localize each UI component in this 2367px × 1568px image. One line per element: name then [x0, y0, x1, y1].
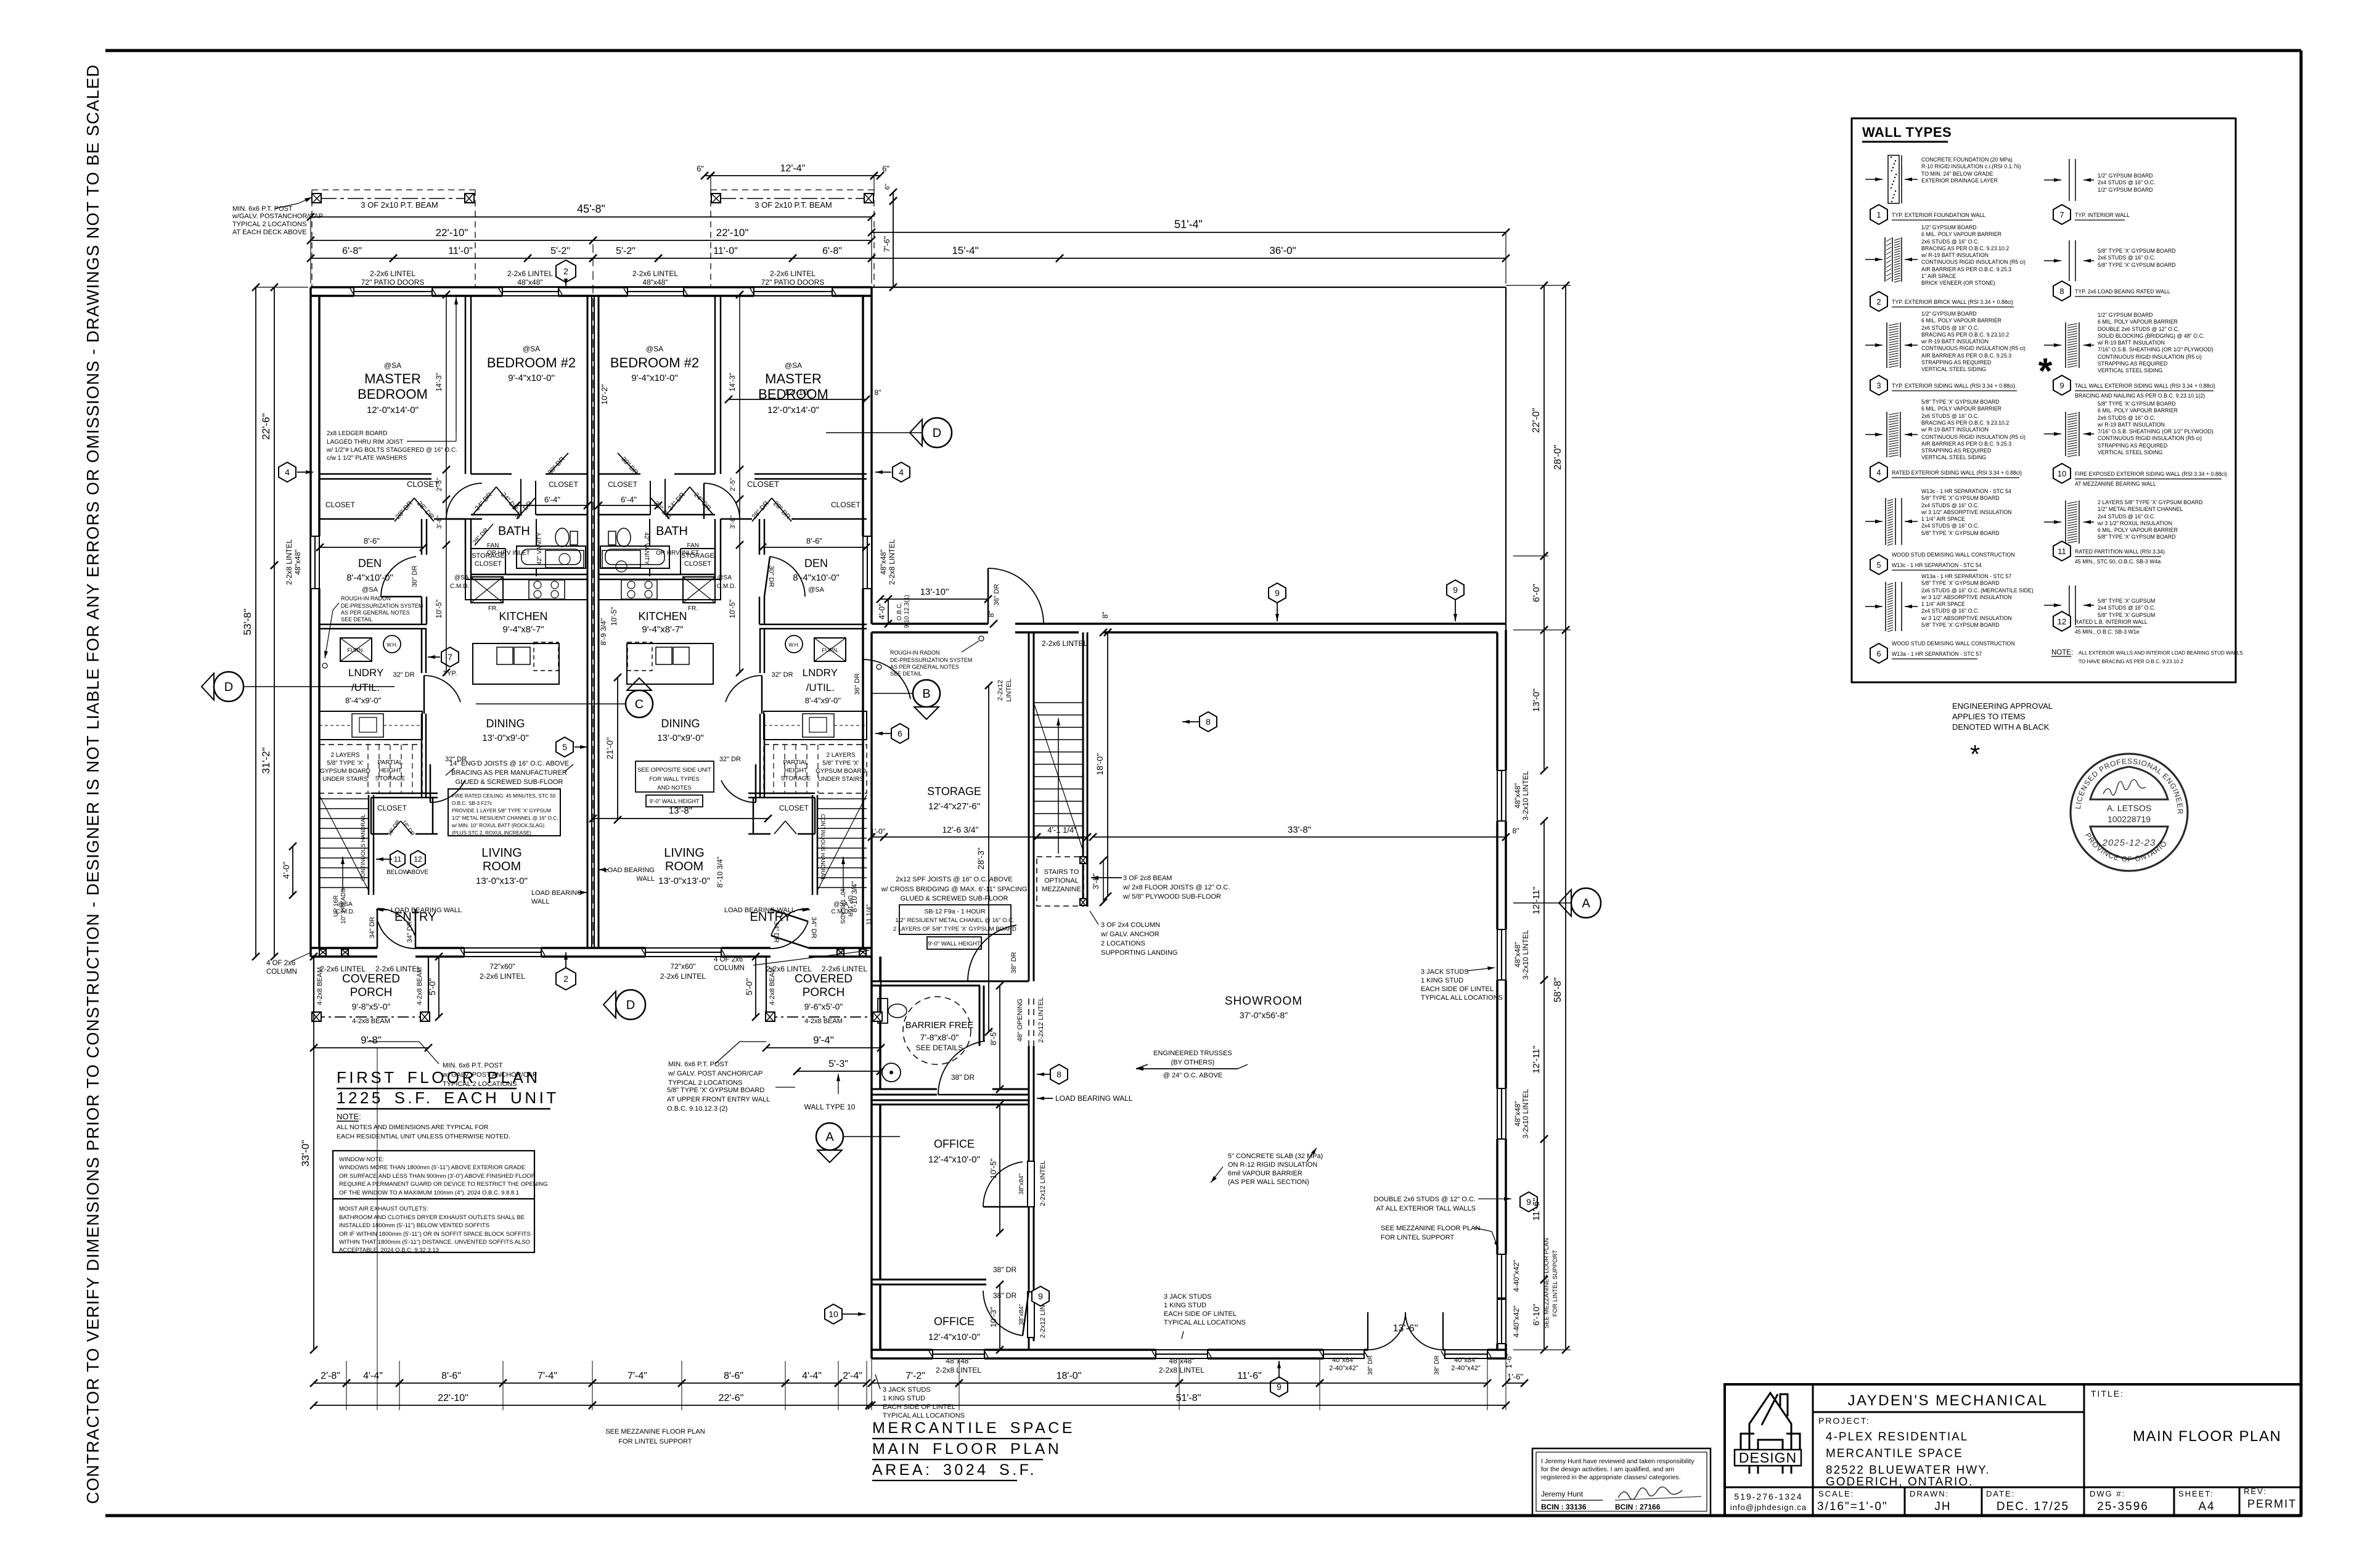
svg-text:Jeremy Hunt: Jeremy Hunt: [1541, 1490, 1584, 1498]
svg-text:CONTINUOUS RIGID INSULATION (R: CONTINUOUS RIGID INSULATION (R5 ci): [2098, 354, 2202, 360]
unit1 interior walls: bedroom band: [465, 296, 467, 474]
svg-text:CLOSET: CLOSET: [549, 480, 579, 489]
svg-text:48" OPENING: 48" OPENING: [1016, 998, 1024, 1042]
svg-text:(AS PER WALL SECTION): (AS PER WALL SECTION): [1228, 1178, 1309, 1186]
svg-text:WOOD STUD DEMISING WALL CONSTR: WOOD STUD DEMISING WALL CONSTRUCTION: [1892, 640, 2015, 647]
svg-text:5/8" TYPE 'X' GYPSUM BOARD: 5/8" TYPE 'X' GYPSUM BOARD: [1921, 495, 2000, 501]
svg-text:MIN. 6x6 P.T. POST: MIN. 6x6 P.T. POST: [668, 1061, 729, 1068]
svg-text:LINTEL: LINTEL: [1005, 679, 1013, 701]
svg-text:2x8 LEDGER BOARD: 2x8 LEDGER BOARD: [327, 430, 387, 437]
unit1 bath vanity: [546, 550, 584, 568]
svg-text:@SA: @SA: [717, 574, 732, 581]
svg-text:8": 8": [987, 611, 995, 618]
svg-text:@ 24" O.C. ABOVE: @ 24" O.C. ABOVE: [1163, 1072, 1222, 1079]
svg-text:72"x60": 72"x60": [489, 962, 515, 971]
svg-text:6'-8": 6'-8": [342, 246, 362, 256]
svg-text:BRACING AS PER O.B.C. 9.23.10.: BRACING AS PER O.B.C. 9.23.10.2: [1921, 420, 2009, 426]
svg-text:WOOD STUD DEMISING WALL CONSTR: WOOD STUD DEMISING WALL CONSTRUCTION: [1892, 552, 2015, 558]
svg-text:2-2x6 LINTEL: 2-2x6 LINTEL: [1042, 639, 1087, 648]
office door rects in wall: [1028, 1161, 1034, 1207]
svg-text:w/ 2x8 FLOOR JOISTS @ 12" O.C.: w/ 2x8 FLOOR JOISTS @ 12" O.C.: [1122, 884, 1230, 891]
double door 2-76x42 south: [1368, 1312, 1405, 1350]
title block frame: [1725, 1384, 2301, 1516]
jeremy hunt declaration box: [1532, 1448, 1711, 1515]
svg-text:w/ 3 1/2" ROXUL INSULATION: w/ 3 1/2" ROXUL INSULATION: [2097, 520, 2172, 526]
engineer stamp: [2071, 754, 2188, 871]
svg-text:3-2x10 LINTEL: 3-2x10 LINTEL: [1521, 1088, 1530, 1138]
svg-text:2'-4": 2'-4": [843, 1371, 862, 1381]
svg-text:w/ 3 1/2" ABSORPTIVE INSULATIO: w/ 3 1/2" ABSORPTIVE INSULATION: [1921, 594, 2012, 600]
svg-text:15'-4": 15'-4": [952, 245, 978, 256]
svg-text:21'-0": 21'-0": [605, 737, 615, 759]
svg-text:7/16" O.S.B. SHEATHING (OR 1/2: 7/16" O.S.B. SHEATHING (OR 1/2" PLYWOOD): [2098, 428, 2214, 435]
svg-text:5/8" TYPE 'X' GYPSUM BOARD: 5/8" TYPE 'X' GYPSUM BOARD: [2098, 401, 2176, 407]
svg-text:O.B.C. 9.10.12.3 (2): O.B.C. 9.10.12.3 (2): [667, 1105, 727, 1113]
D marker bottom: [616, 990, 645, 1019]
hexagon 2 bottom: [556, 968, 576, 990]
svg-text:BEDROOM: BEDROOM: [358, 386, 428, 402]
svg-text:1/2" METAL RESILIENT CHANNEL: 1/2" METAL RESILIENT CHANNEL: [2098, 506, 2183, 512]
svg-text:10'-5": 10'-5": [989, 1158, 998, 1179]
svg-text:DATE:: DATE:: [1986, 1489, 2015, 1498]
svg-text:9'-0" WALL HEIGHT: 9'-0" WALL HEIGHT: [928, 941, 980, 947]
svg-text:2025-12-23: 2025-12-23: [2102, 838, 2156, 848]
svg-text:12: 12: [414, 855, 422, 864]
svg-text:TO HAVE BRACING AS PER O.B.C.: TO HAVE BRACING AS PER O.B.C. 9.23.10.2: [2079, 659, 2183, 664]
window: unit1 bedroom2 48x48: [502, 287, 558, 296]
svg-text:WINDOW NOTE:: WINDOW NOTE:: [339, 1156, 384, 1163]
D marker top right: [922, 418, 952, 447]
door from unit2 hall to mercantile: [863, 659, 910, 699]
svg-text:1" AIR SPACE: 1" AIR SPACE: [1921, 273, 1956, 279]
svg-text:MERCANTILE SPACE: MERCANTILE SPACE: [1826, 1447, 1963, 1460]
svg-text:O.B.C. SB-3 F27c: O.B.C. SB-3 F27c: [452, 801, 493, 806]
covered porch unit1: [313, 957, 314, 1017]
svg-text:TYPICAL 2 LOCATIONS: TYPICAL 2 LOCATIONS: [232, 221, 306, 228]
svg-text:EACH RESIDENTIAL UNIT UNLESS O: EACH RESIDENTIAL UNIT UNLESS OTHERWISE N…: [337, 1133, 510, 1140]
svg-text:28'-0": 28'-0": [1553, 445, 1563, 470]
unit1 below/above markers: [390, 851, 405, 868]
svg-text:9'-4": 9'-4": [813, 1034, 834, 1046]
svg-text:WALL: WALL: [636, 875, 655, 883]
hexagon 9 west: [1032, 1286, 1049, 1306]
svg-text:28'-3": 28'-3": [976, 847, 986, 870]
svg-text:COVERED: COVERED: [795, 973, 852, 986]
svg-text:OF THE WINDOW TO A MAXIMUM 100: OF THE WINDOW TO A MAXIMUM 100mm (4"). 2…: [339, 1190, 519, 1196]
unit1 closet bifold doors: [473, 487, 496, 515]
hexagon 6 storage: [891, 724, 909, 743]
svg-text:LNDRY: LNDRY: [803, 667, 838, 679]
svg-text:11'-6": 11'-6": [1531, 1198, 1542, 1220]
svg-text:GLUED & SCREWED SUB-FLOOR: GLUED & SCREWED SUB-FLOOR: [456, 778, 563, 786]
svg-text:I Jeremy Hunt have reviewed an: I Jeremy Hunt have reviewed and taken re…: [1541, 1458, 1695, 1465]
svg-text:7: 7: [2059, 210, 2064, 219]
svg-text:MASTER: MASTER: [364, 371, 421, 386]
svg-text:3 JACK STUDS: 3 JACK STUDS: [883, 1386, 931, 1394]
svg-text:2 LAYERS 5/8" TYPE 'X' GYPSUM: 2 LAYERS 5/8" TYPE 'X' GYPSUM BOARD: [2098, 499, 2202, 505]
svg-text:CLOSET: CLOSET: [475, 560, 502, 568]
svg-text:BELOW: BELOW: [386, 869, 409, 876]
dim 51-4 top right: [872, 232, 1506, 233]
svg-text:ROOM: ROOM: [665, 860, 703, 873]
svg-text:w/ GALV. POST ANCHOR/CAP: w/ GALV. POST ANCHOR/CAP: [668, 1070, 762, 1077]
svg-text:ROOM: ROOM: [483, 860, 521, 873]
dim 5-3 gypsum: [797, 1071, 880, 1072]
svg-text:CLOSET: CLOSET: [377, 804, 407, 812]
svg-text:4-2x8 BEAM: 4-2x8 BEAM: [804, 1018, 843, 1025]
svg-text:3 JACK STUDS: 3 JACK STUDS: [1164, 1293, 1212, 1301]
unit2 stairs: [817, 795, 819, 895]
legend entry 5 demising W13c: [1885, 498, 1886, 545]
svg-text:2-2x8 LINTEL: 2-2x8 LINTEL: [285, 539, 293, 585]
unit1 closet wall: [319, 473, 431, 475]
svg-text:A4: A4: [2198, 1500, 2215, 1513]
svg-text:22'-6": 22'-6": [719, 1393, 744, 1403]
svg-text:33'-8": 33'-8": [1288, 825, 1311, 835]
svg-text:CLOSET: CLOSET: [407, 480, 439, 489]
svg-text:48"x48": 48"x48": [1513, 783, 1522, 808]
svg-text:45'-8": 45'-8": [577, 203, 605, 215]
svg-text:6 MIL. POLY VAPOUR BARRIER: 6 MIL. POLY VAPOUR BARRIER: [1921, 231, 2001, 237]
svg-text:1/2" GYPSUM BOARD: 1/2" GYPSUM BOARD: [1921, 224, 1977, 231]
svg-text:72" PATIO DOORS: 72" PATIO DOORS: [761, 278, 825, 287]
svg-text:5/8" TYPE 'X' GUPSUM: 5/8" TYPE 'X' GUPSUM: [2098, 612, 2155, 618]
unit1 closet door 32in: [430, 780, 465, 802]
svg-text:(PLUS STC 2, ROXUL INCREASE): (PLUS STC 2, ROXUL INCREASE): [452, 830, 531, 836]
dim 13-10 and 4-0 OBC: [880, 598, 988, 600]
svg-text:SOLID BLOCKING (BRIDGING) @ 48: SOLID BLOCKING (BRIDGING) @ 48" O.C.: [2098, 333, 2204, 339]
svg-text:6'-8": 6'-8": [822, 246, 842, 256]
svg-text:8'-6": 8'-6": [806, 536, 822, 545]
wall: barrier free room: [872, 981, 1029, 982]
wall: mercantile east wall: [1505, 630, 1507, 770]
svg-text:w/ MIN. 10" ROXUL BATT (ROCK,S: w/ MIN. 10" ROXUL BATT (ROCK,SLAG): [451, 823, 544, 828]
svg-text:AIR BARRIER AS PER O.B.C. 9.25: AIR BARRIER AS PER O.B.C. 9.25.3: [1921, 353, 2011, 359]
title block bottom row: [1904, 1487, 1906, 1516]
svg-text:STRAPPING AS REQUIRED: STRAPPING AS REQUIRED: [1921, 359, 1991, 365]
svg-text:AND NOTES: AND NOTES: [657, 785, 691, 791]
svg-text:STRAPPING AS REQUIRED: STRAPPING AS REQUIRED: [2098, 443, 2167, 449]
svg-text:11: 11: [394, 855, 402, 864]
dim 22-10 x2 top: [311, 240, 593, 241]
svg-text:EACH SIDE OF LINTEL: EACH SIDE OF LINTEL: [1421, 986, 1494, 993]
svg-text:SCALE:: SCALE:: [1818, 1489, 1854, 1498]
barrier free sink: [882, 1063, 901, 1082]
svg-text:CLOSET: CLOSET: [325, 500, 356, 509]
svg-text:ON R-12 RIGID INSULATION: ON R-12 RIGID INSULATION: [1228, 1161, 1317, 1169]
svg-text:w/ 1/2"# LAG BOLTS STAGGERED @: w/ 1/2"# LAG BOLTS STAGGERED @ 16" O.C.: [326, 447, 457, 454]
svg-text:36" DR: 36" DR: [993, 584, 1000, 605]
dim top row detail: [311, 258, 393, 259]
wall: stairwell right wall: [1082, 632, 1084, 907]
svg-text:18'-0": 18'-0": [1095, 753, 1105, 775]
svg-text:w/ 3 1/2" ABSORPTIVE INSULATIO: w/ 3 1/2" ABSORPTIVE INSULATION: [1921, 615, 2012, 621]
svg-text:GYPSUM BOARD: GYPSUM BOARD: [816, 768, 866, 775]
walls: offices: [872, 1100, 1029, 1101]
svg-text:BARRIER FREE: BARRIER FREE: [906, 1020, 974, 1031]
svg-text:C.M.D.: C.M.D.: [831, 909, 850, 915]
svg-text:TO MIN. 24" BELOW GRADE: TO MIN. 24" BELOW GRADE: [1921, 171, 1993, 177]
svg-text:OR IF WITHIN 1800mm (5'-11") O: OR IF WITHIN 1800mm (5'-11") OR IN SOFFI…: [339, 1231, 531, 1238]
svg-text:25-3596: 25-3596: [2097, 1500, 2149, 1513]
unit1 den walls: [421, 519, 423, 555]
svg-text:2-2x6 LINTEL: 2-2x6 LINTEL: [766, 965, 812, 973]
unit1 water heater: [383, 635, 401, 653]
svg-text:CONTINUOUS HANDRAIL: CONTINUOUS HANDRAIL: [360, 814, 366, 881]
window: unit1 patio door 72in: [354, 287, 432, 296]
svg-text:34" DR: 34" DR: [772, 921, 780, 942]
svg-text:PROVIDE 1 LAYER 5/8" TYPE 'X': PROVIDE 1 LAYER 5/8" TYPE 'X' GYPSUM: [452, 808, 551, 814]
window: unit2 living room 72x60: [645, 948, 721, 957]
svg-text:@SA: @SA: [808, 586, 825, 594]
unit1 laundry machines: [319, 711, 422, 740]
svg-text:EXTERIOR DRAINAGE LAYER: EXTERIOR DRAINAGE LAYER: [1921, 178, 1998, 184]
svg-text:LOAD BEARING WALL: LOAD BEARING WALL: [1055, 1094, 1133, 1103]
misc small dims center: [517, 505, 587, 506]
svg-text:COLUMN: COLUMN: [266, 968, 297, 976]
svg-text:TYP. INTERIOR WALL: TYP. INTERIOR WALL: [2075, 212, 2130, 218]
svg-text:LIVING: LIVING: [664, 846, 705, 860]
svg-text:13'-0"x9'-0": 13'-0"x9'-0": [482, 733, 529, 743]
window: unit2 patio door 72in: [754, 287, 832, 296]
svg-text:BEDROOM #2: BEDROOM #2: [487, 355, 576, 370]
svg-text:RATED EXTERIOR SIDING WALL (RS: RATED EXTERIOR SIDING WALL (RSI 3.34 + 0…: [1892, 470, 2022, 476]
svg-text:PORCH: PORCH: [350, 986, 393, 999]
unit2 interior vertical dim chain: [739, 295, 740, 672]
svg-text:BRICK VENEER (OR STONE): BRICK VENEER (OR STONE): [1921, 280, 1995, 286]
svg-text:5: 5: [562, 742, 567, 752]
unit2 partial height storage band: [764, 745, 867, 793]
svg-text:2x6 STUDS @ 16" O.C.: 2x6 STUDS @ 16" O.C.: [2098, 255, 2156, 261]
windows south wall: [933, 1350, 984, 1358]
svg-text:CONTINUOUS RIGID INSULATION (R: CONTINUOUS RIGID INSULATION (R5 ci): [1921, 345, 2026, 351]
svg-text:@SA: @SA: [785, 361, 802, 370]
svg-text:14'-3": 14'-3": [728, 373, 737, 392]
unit1 entry doors: [377, 909, 415, 936]
svg-text:9'-8"x5'-0": 9'-8"x5'-0": [352, 1002, 391, 1011]
svg-text:4: 4: [1876, 468, 1881, 477]
svg-text:9'-6"x5'-0": 9'-6"x5'-0": [804, 1002, 843, 1011]
svg-text:WITHIN THAT 1800mm (5'-11") DI: WITHIN THAT 1800mm (5'-11") DISTANCE. UN…: [339, 1239, 530, 1246]
porch1 dim 9-8: [314, 1047, 428, 1048]
48in opening dashed: [1028, 998, 1029, 1046]
svg-text:2-2x12: 2-2x12: [997, 680, 1004, 701]
svg-text:WALL TYPES: WALL TYPES: [1862, 125, 1952, 140]
legend entry 2 brick wall: [1884, 237, 1886, 282]
wall: demising double wall: [587, 296, 589, 948]
svg-text:5/8" TYPE 'X' GYPSUM BOARD: 5/8" TYPE 'X' GYPSUM BOARD: [2098, 534, 2176, 540]
svg-text:12: 12: [2058, 617, 2066, 626]
legend entry 6 demising W13a: [1885, 582, 1886, 631]
hexagon 8 showroom: [1050, 1064, 1068, 1084]
svg-text:1'-0": 1'-0": [870, 827, 885, 836]
svg-text:9'-0" WALL HEIGHT: 9'-0" WALL HEIGHT: [650, 798, 700, 804]
svg-text:FURN.: FURN.: [347, 647, 364, 653]
svg-text:2x6 STUDS @ 16" O.C.: 2x6 STUDS @ 16" O.C.: [1921, 325, 1979, 331]
svg-text:4: 4: [899, 467, 904, 477]
svg-text:6'-4": 6'-4": [544, 495, 560, 504]
svg-text:5/8" TYPE 'X': 5/8" TYPE 'X': [822, 760, 859, 767]
svg-text:ENTRY: ENTRY: [750, 910, 791, 924]
svg-text:AT MEZZANINE BEARING WALL: AT MEZZANINE BEARING WALL: [2075, 481, 2156, 487]
svg-text:11'-0": 11'-0": [713, 246, 738, 256]
svg-text:2x4 STUDS @ 16" O.C.: 2x4 STUDS @ 16" O.C.: [1921, 608, 1979, 614]
svg-text:AT ALL EXTERIOR TALL WALLS: AT ALL EXTERIOR TALL WALLS: [1376, 1205, 1476, 1212]
svg-text:3/16"=1'-0": 3/16"=1'-0": [1817, 1500, 1888, 1513]
svg-text:37'-0"x56'-8": 37'-0"x56'-8": [1240, 1010, 1288, 1020]
svg-text:SEE DETAILS: SEE DETAILS: [916, 1043, 963, 1052]
svg-text:3 JACK STUDS: 3 JACK STUDS: [1421, 968, 1469, 976]
svg-text:31'-2": 31'-2": [260, 747, 272, 774]
stamp lower date lens: [2090, 827, 2168, 859]
svg-text:6": 6": [697, 164, 704, 173]
svg-text:2'-8": 2'-8": [321, 1371, 340, 1381]
D marker left: [214, 672, 243, 701]
hexagon 9 right: [1520, 1192, 1537, 1212]
left 4-0 dim: [292, 846, 293, 895]
svg-text:2-40"x42": 2-40"x42": [1451, 1365, 1481, 1372]
svg-text:13'-0": 13'-0": [1531, 688, 1542, 712]
svg-text:AIR BARRIER AS PER O.B.C. 9.25: AIR BARRIER AS PER O.B.C. 9.25.3: [1921, 441, 2011, 447]
svg-text:72" PATIO DOORS: 72" PATIO DOORS: [361, 278, 425, 287]
svg-text:6 MIL. POLY VAPOUR BARRIER: 6 MIL. POLY VAPOUR BARRIER: [1921, 406, 2001, 412]
svg-text:5/8" TYPE 'X' GYPSUM BOARD: 5/8" TYPE 'X' GYPSUM BOARD: [1921, 580, 2000, 586]
mercantile stairs treads: [1034, 702, 1083, 703]
svg-text:B: B: [922, 687, 930, 701]
svg-text:W.H.: W.H.: [788, 642, 799, 648]
svg-text:2-2x8 LINTEL: 2-2x8 LINTEL: [936, 1366, 981, 1374]
svg-text:9'-4"x10'-0": 9'-4"x10'-0": [631, 373, 678, 383]
svg-text:12'-11": 12'-11": [1531, 1045, 1542, 1073]
svg-text:JAYDEN'S MECHANICAL: JAYDEN'S MECHANICAL: [1847, 1392, 2048, 1409]
legend entry 4 rated siding wall: [1886, 412, 1887, 457]
svg-text:CLOSET: CLOSET: [608, 480, 638, 489]
svg-text:FIRST FLOOR PLAN: FIRST FLOOR PLAN: [337, 1068, 541, 1087]
wall: duplex top exterior: [311, 286, 872, 288]
svg-text:COVERED: COVERED: [342, 973, 400, 986]
unit1 entry closet: [371, 793, 438, 794]
legend entry 10 fire exposed wall: [2065, 412, 2066, 456]
hexagon 5 center: [556, 737, 573, 757]
svg-text:30" DR: 30" DR: [411, 565, 419, 587]
svg-text:5'-3": 5'-3": [828, 1059, 848, 1069]
legend entry 7 interior wall: [2069, 159, 2070, 201]
svg-text:RATED PARTITION WALL (RSI 3.34: RATED PARTITION WALL (RSI 3.34): [2075, 549, 2165, 555]
svg-text:48"x48": 48"x48": [946, 1357, 971, 1365]
svg-text:CLOSET: CLOSET: [779, 804, 809, 812]
svg-text:45 MIN., STC 50, O.B.C. SB-3 W: 45 MIN., STC 50, O.B.C. SB-3 W4a: [2075, 558, 2161, 565]
svg-text:5/8" TYPE 'X': 5/8" TYPE 'X': [327, 760, 364, 767]
svg-text:12'-4"x10'-0": 12'-4"x10'-0": [928, 1332, 980, 1342]
hexagon 7 typ: [441, 647, 459, 667]
svg-text:R-10 RIGID INSULATION c.i.(RSI: R-10 RIGID INSULATION c.i.(RSI 0.1.76): [1921, 163, 2021, 169]
wall: mercantile north wall: [872, 623, 988, 625]
svg-text:@SA: @SA: [646, 345, 663, 353]
svg-text:C.M.D.: C.M.D.: [335, 909, 354, 915]
svg-text:WINDOWS MORE THAN 1800mm (5'-1: WINDOWS MORE THAN 1800mm (5'-11") ABOVE …: [339, 1164, 525, 1171]
svg-text:STORAGE: STORAGE: [375, 775, 406, 782]
svg-text:8: 8: [1057, 1069, 1061, 1079]
svg-text:1/2" METAL RESILIENT CHANNEL @: 1/2" METAL RESILIENT CHANNEL @ 16" O.C.: [452, 815, 558, 821]
hexagon 9 top: [1447, 580, 1464, 600]
unit1 bath toilet: [555, 528, 569, 547]
unit1 stove: [529, 580, 565, 599]
window: unit1 living room 72x60: [464, 948, 541, 957]
svg-text:1225 S.F. EACH UNIT: 1225 S.F. EACH UNIT: [337, 1088, 559, 1107]
svg-text:14'-3": 14'-3": [435, 373, 443, 392]
svg-text:100228719: 100228719: [2107, 814, 2151, 824]
unit1 stairs: [368, 795, 370, 895]
svg-text:/UTIL.: /UTIL.: [351, 682, 380, 693]
unit2 bath walls: [720, 519, 722, 579]
svg-text:BRACING AS PER MANUFACTURER: BRACING AS PER MANUFACTURER: [451, 769, 567, 777]
svg-text:8'-4"x10'-0": 8'-4"x10'-0": [346, 573, 393, 583]
svg-text:*: *: [1970, 740, 1980, 769]
svg-text:1/2" RESILIENT METAL CHANEL @: 1/2" RESILIENT METAL CHANEL @ 16" O.C.: [895, 917, 1014, 924]
svg-text:3: 3: [1876, 381, 1881, 390]
svg-text:info@jphdesign.ca: info@jphdesign.ca: [1730, 1503, 1807, 1512]
unit1 bath fixtures: tub: [517, 546, 586, 568]
svg-text:VERTICAL STEEL SIDING: VERTICAL STEEL SIDING: [1921, 454, 1986, 460]
svg-text:45 MIN., O.B.C. SB-3 W1e: 45 MIN., O.B.C. SB-3 W1e: [2075, 629, 2140, 635]
svg-text:w/ CROSS BRIDGING @ MAX. 6'-11: w/ CROSS BRIDGING @ MAX. 6'-11" SPACING: [881, 886, 1028, 893]
svg-text:SEE MEZZANINE FLOOR PLAN: SEE MEZZANINE FLOOR PLAN: [605, 1428, 705, 1435]
unit1 partial height storage band: [319, 745, 422, 793]
svg-text:EACH SIDE OF LINTEL: EACH SIDE OF LINTEL: [1164, 1310, 1237, 1318]
svg-text:9: 9: [1453, 585, 1458, 595]
svg-text:DE-PRESSURIZATION SYSTEM: DE-PRESSURIZATION SYSTEM: [341, 603, 423, 609]
unit2 entry doors: [771, 909, 809, 936]
svg-text:22'-10": 22'-10": [716, 227, 749, 239]
barrier free door arc top: [968, 925, 1016, 981]
dim 21-0 unit2: [617, 677, 618, 820]
svg-text:38" DR: 38" DR: [1010, 952, 1018, 973]
svg-text:A: A: [825, 1130, 834, 1144]
svg-text:6": 6": [884, 184, 891, 190]
svg-text:5/8" TYPE 'X' GYPSUM BOARD: 5/8" TYPE 'X' GYPSUM BOARD: [667, 1087, 764, 1094]
unit1 furnace: [340, 638, 372, 661]
svg-text:36" DR: 36" DR: [854, 673, 861, 695]
svg-text:8'-4"x10'-0": 8'-4"x10'-0": [793, 573, 840, 583]
svg-text:AS PER GENERAL NOTES: AS PER GENERAL NOTES: [341, 610, 410, 616]
svg-text:32" DR: 32" DR: [719, 756, 741, 763]
svg-text:FR.: FR.: [488, 605, 498, 612]
svg-text:SHOWROOM: SHOWROOM: [1225, 995, 1302, 1008]
svg-text:2x6 STUDS @ 16" O.C.: 2x6 STUDS @ 16" O.C.: [1921, 239, 1979, 245]
svg-text:DINING: DINING: [661, 717, 700, 730]
svg-text:LOAD BEARING: LOAD BEARING: [603, 867, 655, 874]
svg-text:8": 8": [1101, 612, 1110, 619]
svg-text:for the design activities. I: for the design activities. I am qualifie…: [1541, 1466, 1674, 1473]
right dims lower: [1543, 630, 1545, 770]
svg-text:BRACING AND NAILING AS PER O.B: BRACING AND NAILING AS PER O.B.C. 9.23.1…: [2075, 393, 2205, 399]
svg-text:w/ 5/8" PLYWOOD SUB-FLOOR: w/ 5/8" PLYWOOD SUB-FLOOR: [1122, 893, 1221, 900]
svg-text:BATH: BATH: [656, 525, 688, 538]
svg-text:1/2" GYPSUM BOARD: 1/2" GYPSUM BOARD: [2098, 187, 2153, 193]
svg-text:13'-8": 13'-8": [669, 806, 692, 816]
svg-text:C.M.D.: C.M.D.: [717, 583, 736, 590]
svg-text:8'-10 3/4": 8'-10 3/4": [850, 881, 859, 913]
right side dims of duplex interior: [729, 399, 866, 400]
svg-text:HEIGHT: HEIGHT: [784, 767, 807, 774]
svg-text:6 MIL. POLY VAPOUR BARRIER: 6 MIL. POLY VAPOUR BARRIER: [1921, 317, 2001, 324]
svg-text:1/2" GYPSUM BOARD: 1/2" GYPSUM BOARD: [2098, 312, 2153, 318]
unit2 entry closet: [748, 793, 815, 794]
svg-text:18'-0": 18'-0": [1057, 1371, 1082, 1381]
svg-text:13'-0"x9'-0": 13'-0"x9'-0": [657, 733, 704, 743]
unit1 kitchen counters: [465, 579, 587, 600]
svg-text:5'-0": 5'-0": [427, 978, 437, 995]
